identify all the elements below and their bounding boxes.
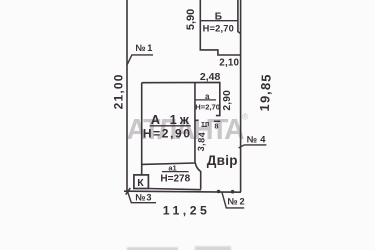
svg-text:Н=2,90: Н=2,90 — [143, 127, 192, 141]
svg-text:А 1ж: А 1ж — [151, 112, 192, 127]
svg-text:а1: а1 — [168, 163, 176, 172]
svg-text:Н=278: Н=278 — [160, 173, 190, 184]
svg-text:5,90: 5,90 — [185, 9, 197, 30]
svg-text:Н=2,70: Н=2,70 — [203, 24, 234, 34]
svg-text:№3: №3 — [135, 192, 152, 202]
svg-text:2,48: 2,48 — [200, 71, 221, 83]
svg-text:№4: №4 — [247, 135, 269, 145]
svg-text:8: 8 — [214, 121, 218, 130]
svg-text:21,00: 21,00 — [111, 73, 125, 109]
svg-text:2,90: 2,90 — [222, 90, 233, 111]
svg-text:19,85: 19,85 — [257, 73, 274, 112]
svg-text:№2: №2 — [228, 196, 247, 206]
svg-text:К: К — [137, 177, 144, 189]
svg-text:3,84: 3,84 — [196, 131, 207, 151]
svg-text:2,10: 2,10 — [219, 57, 239, 68]
svg-text:а: а — [205, 92, 210, 101]
svg-text:Н=2,70: Н=2,70 — [195, 103, 220, 112]
svg-text:№1: №1 — [136, 43, 154, 53]
svg-text:Двір: Двір — [207, 153, 238, 168]
svg-text:тп: тп — [201, 121, 209, 128]
svg-text:11,25: 11,25 — [163, 203, 211, 217]
svg-text:Б: Б — [215, 12, 222, 23]
svg-text:®: ® — [242, 112, 249, 122]
